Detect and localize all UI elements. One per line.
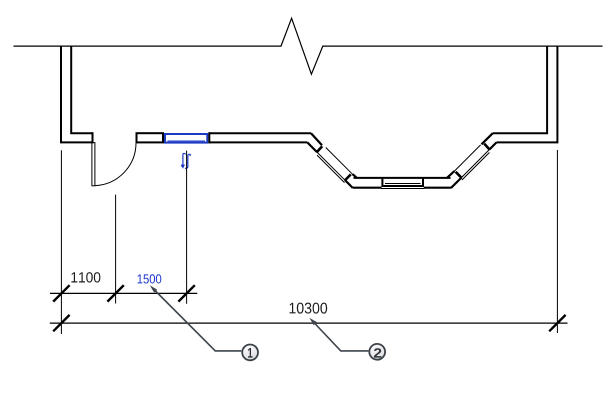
extension line E4: [556, 150, 558, 333]
dim text 10300: [290, 303, 328, 314]
bay left angled window WIN2: [317, 146, 352, 182]
tick mark T4 (dim B left): [53, 315, 69, 331]
door D1 leaf: [92, 143, 95, 186]
tick mark T1 (dim A left): [53, 285, 69, 301]
dim text 1100: [71, 272, 100, 283]
wall W3 between window and bay: [209, 132, 311, 143]
tick mark T2 (dim A middle): [107, 285, 123, 301]
bay left angled wall stubs: [307, 133, 357, 188]
wall W5 right horizontal + right vertical wall: [493, 46, 558, 143]
level reference line with break symbol: [14, 18, 603, 74]
extension line E2: [115, 195, 117, 304]
tick mark T5 (dim B right): [549, 315, 565, 331]
dimension line DIM-B (10300): [50, 322, 568, 324]
door D1 swing arc: [95, 143, 136, 186]
bay bottom wall W4: [353, 178, 452, 189]
leader L2: [312, 321, 368, 351]
bay right angled wall stubs: [447, 133, 497, 188]
callout circle 2: [369, 344, 385, 360]
extension line E3: [186, 151, 188, 304]
wall W2 between door and window: [137, 133, 164, 142]
tick mark T3 (dim A right): [178, 285, 194, 301]
dim text 1500 (blue): [138, 274, 162, 283]
dimension line DIM-A (1100 + 1500): [50, 292, 197, 294]
bay bottom window WIN3: [382, 177, 423, 187]
bay right angled window WIN4: [454, 144, 489, 180]
window WIN1 flip arrows (blue): [181, 154, 190, 169]
extension line E1: [60, 150, 62, 334]
window WIN1 (selected, blue): [165, 134, 207, 143]
wall W1 left (outer+inner lines): [61, 46, 93, 144]
leader L1: [153, 288, 242, 351]
callout circle 1: [242, 345, 258, 361]
